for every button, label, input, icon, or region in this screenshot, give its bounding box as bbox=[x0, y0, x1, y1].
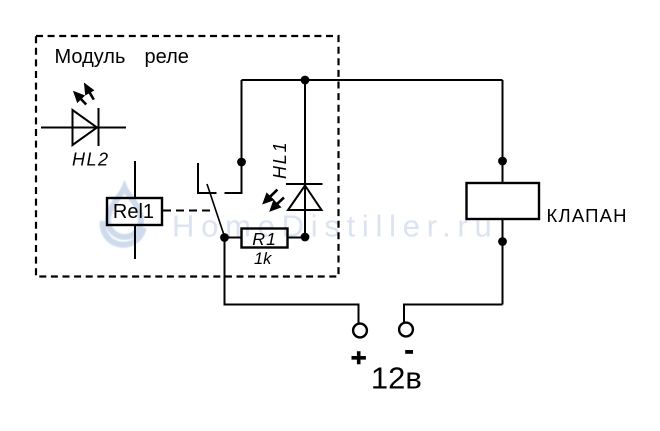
relay coil Rel1 bbox=[107, 161, 162, 259]
svg-text:HL2: HL2 bbox=[72, 150, 110, 170]
svg-text:R1: R1 bbox=[252, 229, 277, 249]
right fixed contact + feed from top rail bbox=[225, 80, 242, 193]
node: pivot dot bbox=[220, 233, 229, 242]
HL1 anode triangle bbox=[288, 186, 322, 211]
right branch wires bbox=[404, 80, 503, 323]
LED HL1 (vertical) bbox=[286, 80, 323, 237]
switch contacts bbox=[198, 80, 242, 238]
HL2 cathode bar bbox=[98, 108, 100, 146]
node above valve bbox=[498, 157, 507, 166]
node below valve bbox=[498, 237, 507, 246]
wire HL2 leads bbox=[41, 127, 126, 129]
LED HL2 bbox=[41, 108, 126, 146]
HL2 anode triangle bbox=[73, 110, 98, 145]
lever bbox=[207, 184, 225, 238]
HL2 light arrows bbox=[75, 85, 94, 104]
left fixed contact bbox=[198, 163, 217, 193]
svg-text:HL1: HL1 bbox=[270, 141, 290, 179]
wire Rel1 bottom lead bbox=[134, 225, 136, 259]
svg-text:Rel1: Rel1 bbox=[113, 201, 154, 223]
wire top rail to valve bbox=[502, 80, 504, 183]
svg-text:КЛАПАН: КЛАПАН bbox=[547, 205, 628, 226]
top rail wire bbox=[242, 79, 503, 81]
Rel1 coil body bbox=[107, 198, 162, 225]
bottom left wires bbox=[225, 238, 359, 324]
HL1 light arrows bbox=[264, 190, 284, 210]
valve КЛАПАН bbox=[467, 183, 540, 219]
node: top rail / HL1 bbox=[301, 76, 310, 85]
svg-text:1k: 1k bbox=[254, 250, 272, 268]
resistor R1 bbox=[242, 229, 288, 248]
mechanical link (dashed) bbox=[163, 210, 212, 212]
HL1 cathode bar bbox=[286, 183, 323, 185]
node: feed dot bbox=[237, 158, 246, 167]
label + bbox=[352, 351, 366, 364]
node: R1/HL1 junction bbox=[301, 233, 310, 242]
wire to minus terminal bbox=[404, 305, 503, 323]
wire R1 to HL1 node bbox=[288, 237, 306, 239]
terminal - bbox=[399, 323, 413, 337]
label - bbox=[405, 350, 413, 354]
wire Rel1 top lead bbox=[134, 161, 136, 198]
wire valve down bbox=[502, 219, 504, 305]
svg-text:12в: 12в bbox=[371, 361, 422, 396]
wire pivot to R1 bbox=[225, 237, 242, 239]
module box (dashed) bbox=[36, 36, 339, 277]
wire top rail to R1 junction through HL1 bbox=[304, 80, 306, 237]
watermark logo drop bbox=[103, 188, 144, 245]
terminal + bbox=[353, 324, 367, 338]
svg-text:Модульреле: Модульреле bbox=[55, 46, 189, 68]
wire pivot to plus terminal bbox=[225, 238, 359, 324]
